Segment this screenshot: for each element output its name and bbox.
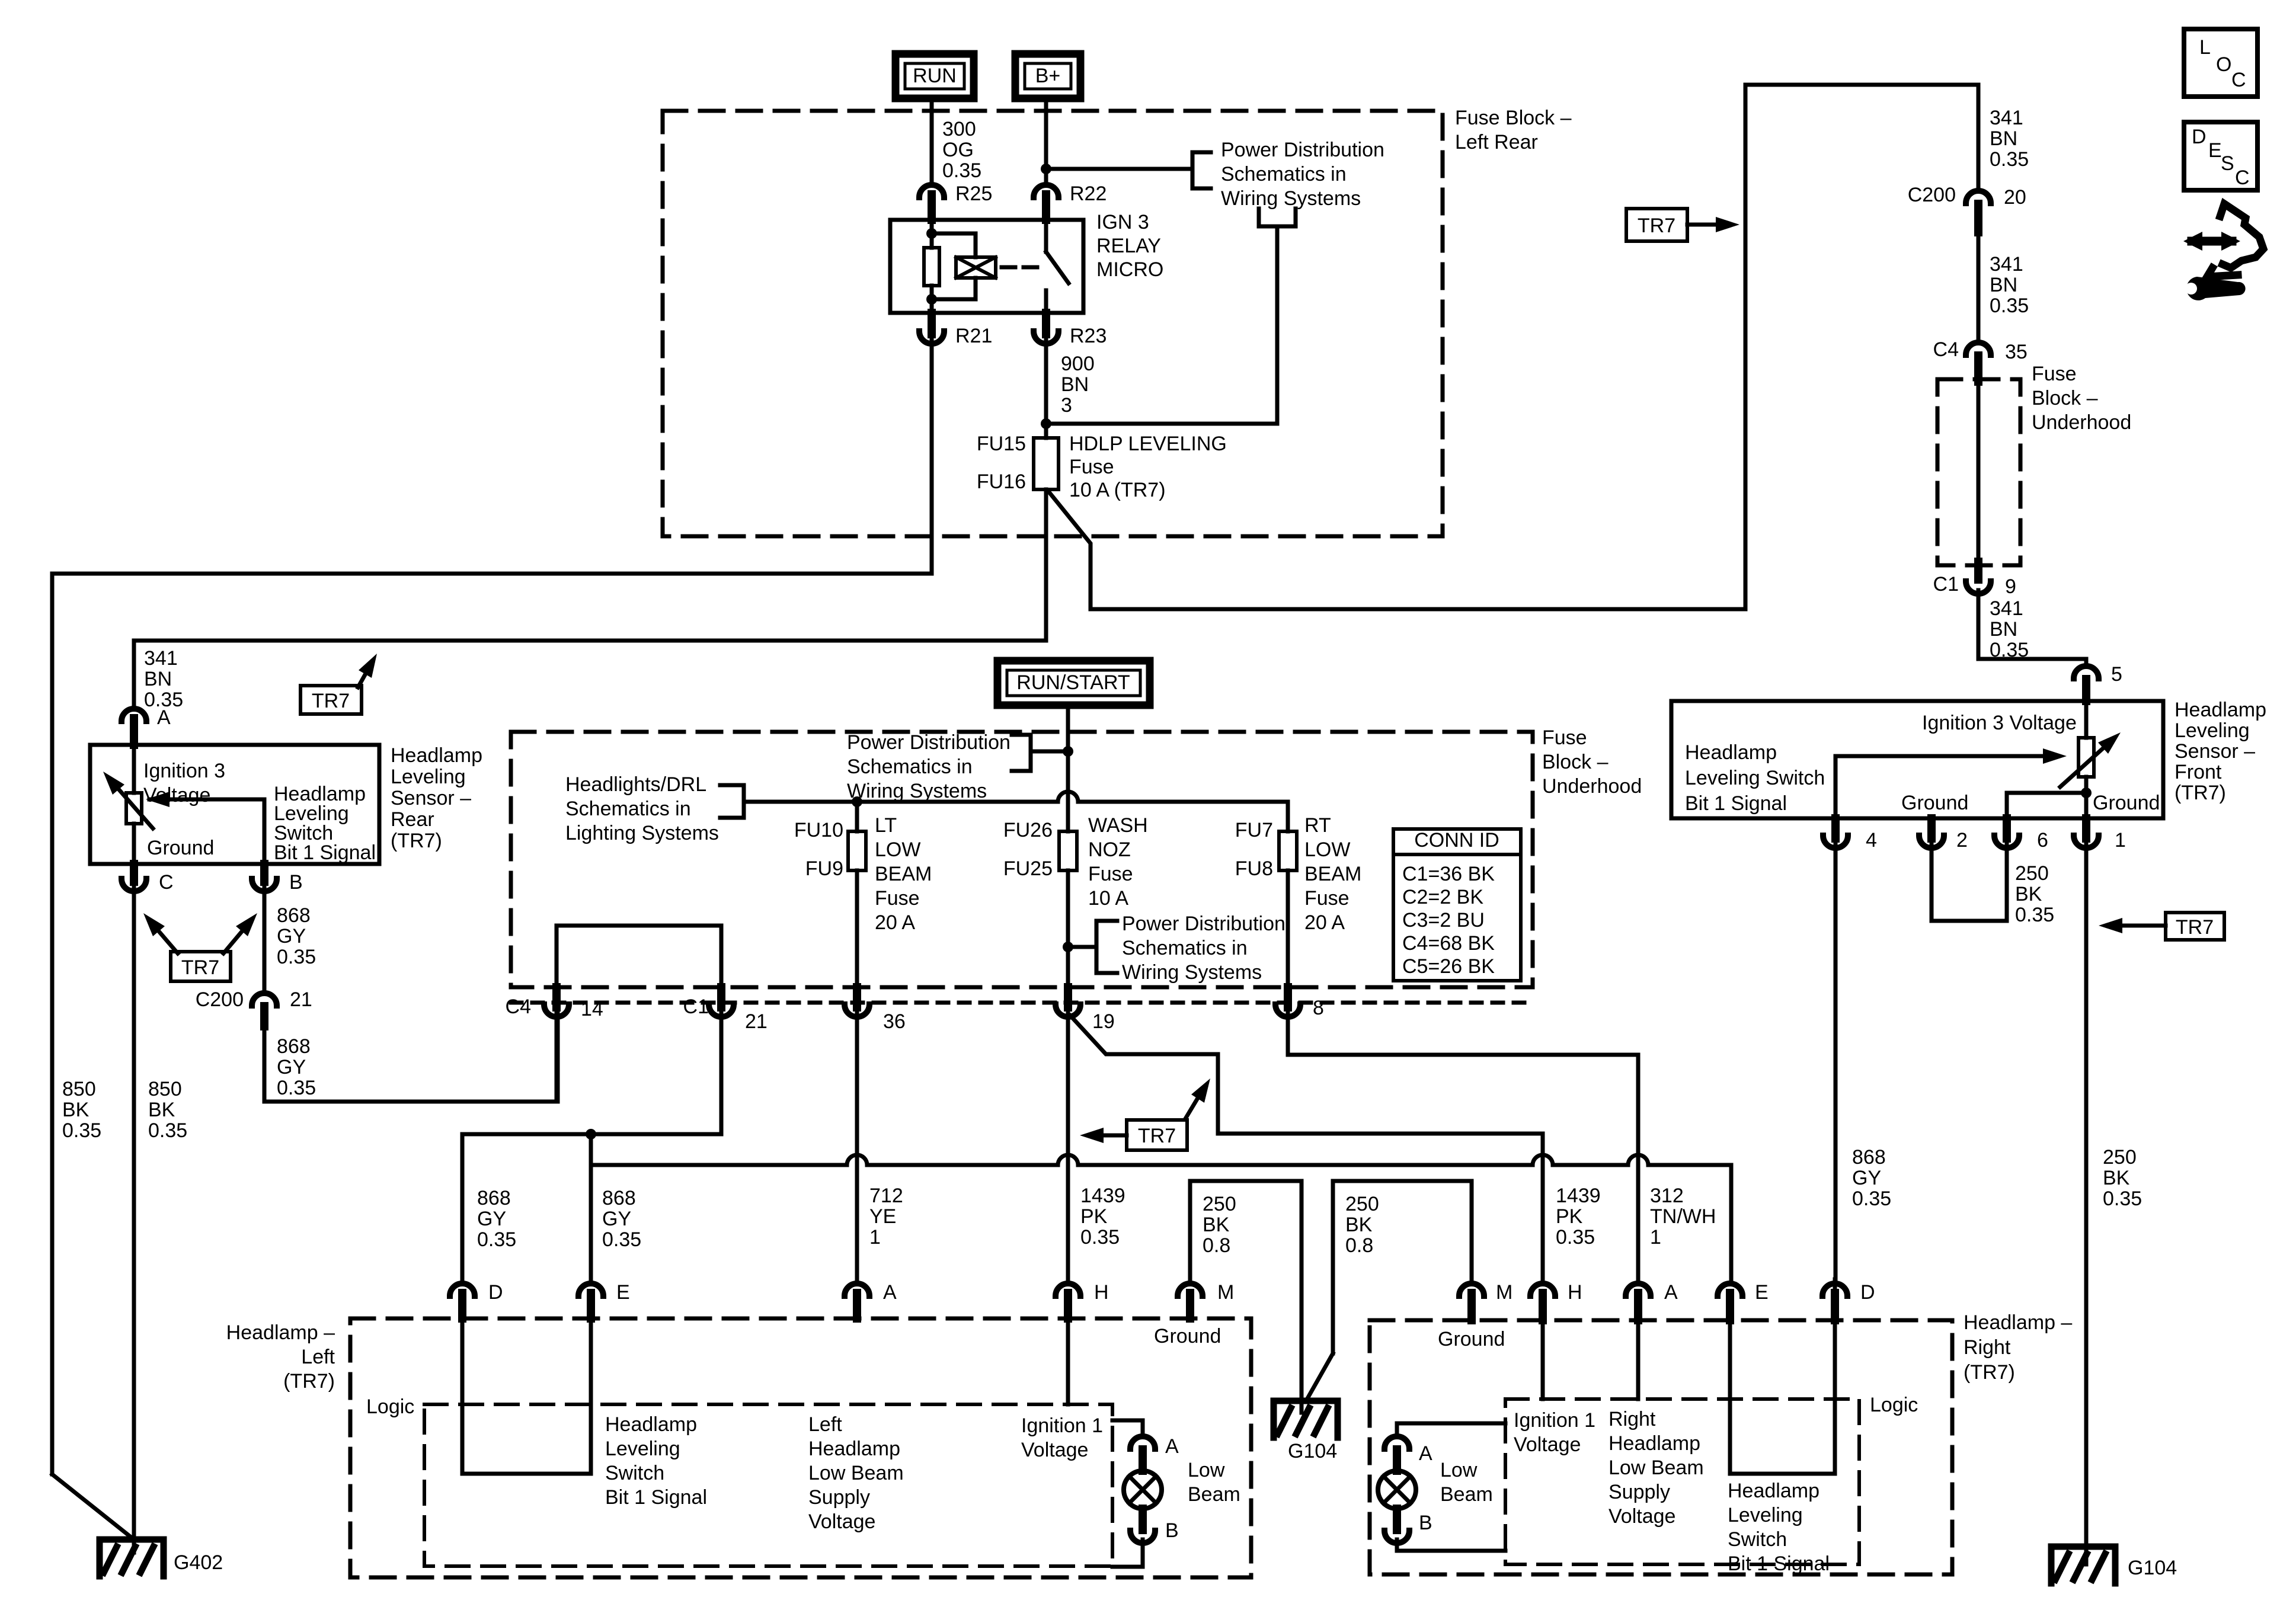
svg-text:0.35: 0.35 [2103, 1188, 2142, 1210]
svg-text:900: 900 [1061, 353, 1095, 375]
svg-text:Fuse: Fuse [1069, 456, 1114, 478]
svg-text:Ground: Ground [1438, 1328, 1505, 1350]
svg-text:C4: C4 [506, 996, 531, 1018]
svg-text:C: C [159, 871, 174, 894]
svg-text:Low: Low [1188, 1459, 1225, 1481]
svg-text:C: C [2235, 167, 2250, 189]
svg-text:Leveling: Leveling [391, 766, 466, 788]
svg-text:Headlights/DRL: Headlights/DRL [565, 773, 706, 796]
svg-text:FU26: FU26 [1003, 819, 1053, 841]
svg-text:Logic: Logic [1870, 1394, 1918, 1416]
svg-text:B: B [1165, 1519, 1179, 1542]
svg-text:Ignition 3: Ignition 3 [143, 760, 225, 782]
svg-text:Headlamp: Headlamp [808, 1438, 900, 1460]
svg-text:868: 868 [477, 1187, 511, 1209]
svg-text:Voltage: Voltage [1021, 1439, 1088, 1461]
svg-text:R21: R21 [955, 325, 992, 347]
svg-text:Power Distribution: Power Distribution [1122, 913, 1285, 935]
svg-text:35: 35 [2005, 341, 2028, 363]
svg-text:B: B [289, 871, 303, 894]
svg-text:0.35: 0.35 [942, 159, 981, 182]
svg-text:Headlamp: Headlamp [605, 1413, 697, 1436]
svg-text:C4=68 BK: C4=68 BK [1402, 932, 1495, 955]
svg-text:Right: Right [1964, 1336, 2011, 1359]
svg-text:D: D [2192, 126, 2207, 148]
svg-text:G104: G104 [2128, 1557, 2177, 1579]
svg-text:Switch: Switch [1728, 1528, 1787, 1551]
svg-text:250: 250 [1203, 1193, 1236, 1215]
svg-text:G104: G104 [1288, 1440, 1337, 1462]
svg-text:BK: BK [1203, 1214, 1230, 1236]
svg-text:BN: BN [1990, 618, 2017, 641]
svg-text:868: 868 [277, 904, 311, 927]
svg-text:C5=26 BK: C5=26 BK [1402, 955, 1495, 978]
svg-text:1: 1 [869, 1226, 881, 1249]
svg-text:312: 312 [1650, 1185, 1684, 1207]
svg-text:FU25: FU25 [1003, 857, 1053, 880]
svg-text:14: 14 [581, 998, 603, 1020]
svg-text:Left: Left [808, 1413, 842, 1436]
svg-text:Block –: Block – [1542, 751, 1609, 773]
svg-text:Headlamp: Headlamp [1609, 1432, 1700, 1455]
svg-text:BK: BK [2103, 1167, 2130, 1189]
svg-text:NOZ: NOZ [1088, 838, 1131, 861]
svg-text:Fuse Block –: Fuse Block – [1455, 107, 1572, 129]
svg-text:Schematics in: Schematics in [1122, 937, 1248, 959]
svg-text:0.35: 0.35 [277, 946, 316, 968]
svg-text:MICRO: MICRO [1096, 258, 1163, 281]
svg-text:0.35: 0.35 [1556, 1226, 1595, 1249]
svg-text:B+: B+ [1035, 65, 1061, 87]
svg-text:6: 6 [2037, 829, 2048, 852]
svg-text:PK: PK [1556, 1205, 1583, 1228]
svg-text:0.35: 0.35 [1990, 295, 2029, 317]
svg-text:0.8: 0.8 [1345, 1234, 1373, 1257]
svg-text:Headlamp: Headlamp [391, 744, 482, 767]
svg-text:712: 712 [869, 1185, 903, 1207]
svg-text:5: 5 [2111, 663, 2122, 686]
svg-text:TR7: TR7 [1638, 215, 1675, 237]
svg-text:1439: 1439 [1556, 1185, 1601, 1207]
svg-text:4: 4 [1866, 829, 1877, 852]
svg-text:A: A [883, 1281, 897, 1304]
svg-text:S: S [2221, 152, 2234, 175]
svg-text:Sensor –: Sensor – [2175, 740, 2255, 763]
svg-text:Fuse: Fuse [1304, 887, 1350, 910]
svg-text:R22: R22 [1070, 183, 1107, 205]
svg-text:Lighting Systems: Lighting Systems [565, 822, 719, 844]
svg-text:CONN ID: CONN ID [1414, 829, 1499, 852]
svg-text:GY: GY [477, 1208, 506, 1230]
svg-text:Beam: Beam [1440, 1483, 1493, 1506]
svg-text:E: E [2208, 139, 2222, 162]
svg-text:341: 341 [144, 647, 178, 670]
svg-text:0.35: 0.35 [1990, 148, 2029, 171]
svg-text:Headlamp –: Headlamp – [1964, 1311, 2072, 1334]
svg-text:TR7: TR7 [2176, 916, 2214, 939]
svg-text:Ignition 1: Ignition 1 [1514, 1409, 1595, 1432]
svg-text:PK: PK [1080, 1205, 1108, 1228]
svg-text:Supply: Supply [1609, 1481, 1670, 1503]
svg-text:250: 250 [1345, 1193, 1379, 1215]
svg-text:850: 850 [148, 1078, 182, 1100]
svg-text:BEAM: BEAM [875, 863, 932, 885]
svg-text:0.35: 0.35 [62, 1119, 101, 1142]
svg-text:Schematics in: Schematics in [847, 756, 973, 778]
svg-text:Fuse: Fuse [2032, 363, 2077, 385]
svg-text:R25: R25 [955, 183, 992, 205]
svg-text:Sensor –: Sensor – [391, 787, 471, 809]
svg-text:RUN/START: RUN/START [1016, 671, 1130, 694]
svg-text:0.35: 0.35 [602, 1228, 641, 1251]
svg-text:GY: GY [277, 925, 306, 948]
svg-text:(TR7): (TR7) [2175, 782, 2226, 804]
svg-text:850: 850 [62, 1078, 96, 1100]
svg-text:H: H [1568, 1281, 1582, 1304]
svg-text:Ground: Ground [147, 837, 214, 859]
svg-text:868: 868 [1852, 1146, 1886, 1169]
svg-text:8: 8 [1313, 997, 1324, 1019]
svg-text:1: 1 [2115, 829, 2126, 852]
svg-text:BN: BN [1061, 373, 1089, 396]
svg-text:0.8: 0.8 [1203, 1234, 1230, 1257]
svg-text:Fuse: Fuse [1542, 726, 1587, 749]
svg-text:0.35: 0.35 [1852, 1188, 1891, 1210]
svg-text:Underhood: Underhood [1542, 775, 1642, 798]
svg-text:(TR7): (TR7) [1964, 1361, 2015, 1384]
svg-text:YE: YE [869, 1205, 896, 1228]
svg-text:BK: BK [62, 1099, 89, 1121]
svg-text:Switch: Switch [605, 1462, 664, 1484]
svg-text:BK: BK [148, 1099, 175, 1121]
svg-text:868: 868 [602, 1187, 636, 1209]
svg-text:Voltage: Voltage [143, 784, 210, 806]
svg-text:C2=2 BK: C2=2 BK [1402, 886, 1483, 908]
svg-text:Fuse: Fuse [1088, 863, 1133, 885]
svg-text:Headlamp –: Headlamp – [226, 1321, 335, 1344]
svg-text:E: E [616, 1281, 630, 1304]
svg-text:Bit 1 Signal: Bit 1 Signal [1728, 1553, 1830, 1575]
svg-text:BEAM: BEAM [1304, 863, 1361, 885]
svg-text:LOW: LOW [875, 838, 920, 861]
svg-text:Bit 1 Signal: Bit 1 Signal [1685, 792, 1787, 815]
svg-text:BN: BN [1990, 274, 2017, 296]
svg-text:Low Beam: Low Beam [1609, 1457, 1704, 1479]
svg-text:Leveling: Leveling [2175, 719, 2250, 742]
svg-text:BN: BN [1990, 127, 2017, 150]
svg-text:Left: Left [301, 1346, 335, 1368]
svg-text:0.35: 0.35 [477, 1228, 516, 1251]
svg-text:Wiring Systems: Wiring Systems [1122, 961, 1262, 984]
svg-text:M: M [1217, 1281, 1234, 1304]
svg-text:Voltage: Voltage [1514, 1433, 1581, 1456]
svg-text:Ignition 1: Ignition 1 [1021, 1414, 1103, 1437]
svg-text:Rear: Rear [391, 808, 434, 831]
svg-text:TR7: TR7 [312, 690, 350, 712]
svg-text:Fuse: Fuse [875, 887, 920, 910]
svg-text:868: 868 [277, 1035, 311, 1058]
svg-text:GY: GY [1852, 1167, 1881, 1189]
svg-text:19: 19 [1092, 1010, 1115, 1033]
svg-text:Schematics in: Schematics in [1221, 163, 1347, 185]
svg-text:FU10: FU10 [794, 819, 843, 841]
svg-text:3: 3 [1061, 394, 1072, 417]
svg-text:FU9: FU9 [805, 857, 843, 880]
svg-text:Bit 1 Signal: Bit 1 Signal [274, 841, 376, 864]
svg-text:Ground: Ground [1154, 1325, 1221, 1347]
svg-text:LT: LT [875, 814, 897, 837]
svg-text:Leveling: Leveling [605, 1438, 680, 1460]
svg-text:10 A (TR7): 10 A (TR7) [1069, 479, 1166, 501]
svg-text:FU8: FU8 [1235, 857, 1273, 880]
svg-text:0.35: 0.35 [148, 1119, 187, 1142]
svg-text:Wiring Systems: Wiring Systems [1221, 187, 1361, 210]
svg-text:FU7: FU7 [1235, 819, 1273, 841]
svg-text:341: 341 [1990, 597, 2023, 620]
svg-text:Voltage: Voltage [808, 1510, 875, 1533]
svg-text:Headlamp: Headlamp [1728, 1480, 1819, 1502]
svg-text:Supply: Supply [808, 1486, 870, 1509]
svg-text:C3=2 BU: C3=2 BU [1402, 909, 1485, 932]
svg-text:RT: RT [1304, 814, 1331, 837]
svg-text:M: M [1496, 1281, 1512, 1304]
svg-text:21: 21 [745, 1010, 768, 1033]
svg-text:20 A: 20 A [875, 911, 915, 934]
svg-text:H: H [1094, 1281, 1109, 1304]
svg-text:36: 36 [883, 1010, 906, 1033]
svg-text:9: 9 [2005, 575, 2016, 598]
svg-text:Low Beam: Low Beam [808, 1462, 904, 1484]
svg-text:Power Distribution: Power Distribution [1221, 139, 1384, 161]
svg-text:1439: 1439 [1080, 1185, 1125, 1207]
svg-text:A: A [1419, 1442, 1432, 1465]
svg-text:Leveling: Leveling [1728, 1504, 1803, 1526]
svg-text:Ground: Ground [2093, 792, 2160, 814]
svg-text:OG: OG [942, 139, 974, 161]
svg-text:O: O [2216, 53, 2231, 76]
svg-text:G402: G402 [174, 1551, 223, 1574]
svg-text:341: 341 [1990, 107, 2023, 129]
svg-text:C1: C1 [683, 996, 709, 1018]
svg-text:FU15: FU15 [977, 433, 1026, 455]
svg-text:GY: GY [602, 1208, 631, 1230]
svg-text:Right: Right [1609, 1408, 1656, 1430]
svg-text:250: 250 [2015, 862, 2049, 885]
svg-text:0.35: 0.35 [144, 689, 183, 711]
svg-text:21: 21 [290, 988, 312, 1011]
svg-text:B: B [1419, 1512, 1432, 1534]
svg-text:WASH: WASH [1088, 814, 1148, 837]
svg-text:D: D [1860, 1281, 1875, 1304]
svg-text:TN/WH: TN/WH [1650, 1205, 1716, 1228]
svg-text:Ground: Ground [1901, 792, 1968, 814]
svg-text:1: 1 [1650, 1226, 1661, 1249]
svg-text:Beam: Beam [1188, 1483, 1240, 1506]
svg-text:Left Rear: Left Rear [1455, 131, 1538, 153]
svg-text:GY: GY [277, 1056, 306, 1078]
svg-text:Logic: Logic [366, 1395, 414, 1418]
svg-text:FU16: FU16 [977, 470, 1026, 493]
svg-text:Bit 1 Signal: Bit 1 Signal [605, 1486, 707, 1509]
svg-text:C4: C4 [1933, 338, 1959, 361]
svg-text:250: 250 [2103, 1146, 2137, 1169]
svg-text:Underhood: Underhood [2032, 411, 2131, 434]
svg-text:RUN: RUN [913, 65, 957, 87]
svg-text:0.35: 0.35 [1080, 1226, 1120, 1249]
svg-text:D: D [488, 1281, 503, 1304]
svg-text:A: A [1165, 1435, 1179, 1458]
svg-text:C200: C200 [1908, 184, 1956, 206]
svg-text:Schematics in: Schematics in [565, 798, 691, 820]
svg-text:300: 300 [942, 118, 976, 140]
svg-text:20: 20 [2004, 186, 2026, 209]
svg-text:Low: Low [1440, 1459, 1478, 1481]
svg-text:10 A: 10 A [1088, 887, 1128, 910]
svg-text:Block –: Block – [2032, 387, 2098, 409]
svg-text:Headlamp: Headlamp [2175, 699, 2266, 721]
svg-text:RELAY: RELAY [1096, 235, 1161, 257]
svg-text:E: E [1755, 1281, 1769, 1304]
svg-text:(TR7): (TR7) [391, 830, 442, 852]
svg-text:TR7: TR7 [1138, 1125, 1176, 1147]
svg-text:TR7: TR7 [181, 956, 219, 979]
svg-text:(TR7): (TR7) [283, 1370, 335, 1393]
svg-text:2: 2 [1956, 829, 1968, 852]
svg-text:A: A [1664, 1281, 1678, 1304]
svg-text:341: 341 [1990, 253, 2023, 276]
svg-text:HDLP LEVELING: HDLP LEVELING [1069, 433, 1227, 455]
svg-text:Wiring Systems: Wiring Systems [847, 780, 987, 802]
svg-text:C: C [2231, 69, 2246, 91]
svg-text:Headlamp: Headlamp [1685, 741, 1777, 764]
svg-text:C200: C200 [196, 988, 244, 1011]
svg-text:0.35: 0.35 [277, 1077, 316, 1099]
svg-text:C1: C1 [1933, 573, 1959, 596]
svg-text:Ignition 3 Voltage: Ignition 3 Voltage [1922, 712, 2077, 734]
svg-text:Leveling Switch: Leveling Switch [1685, 767, 1825, 789]
svg-text:LOW: LOW [1304, 838, 1350, 861]
svg-text:IGN 3: IGN 3 [1096, 211, 1149, 233]
svg-text:Voltage: Voltage [1609, 1505, 1675, 1528]
svg-text:0.35: 0.35 [2015, 904, 2054, 926]
svg-text:L: L [2199, 36, 2211, 59]
svg-text:C1=36 BK: C1=36 BK [1402, 863, 1495, 885]
svg-text:Power Distribution: Power Distribution [847, 731, 1011, 754]
svg-text:BK: BK [1345, 1214, 1373, 1236]
svg-text:R23: R23 [1070, 325, 1107, 347]
svg-text:20 A: 20 A [1304, 911, 1345, 934]
svg-text:Front: Front [2175, 761, 2222, 783]
svg-text:BN: BN [144, 668, 172, 690]
svg-text:BK: BK [2015, 883, 2042, 905]
